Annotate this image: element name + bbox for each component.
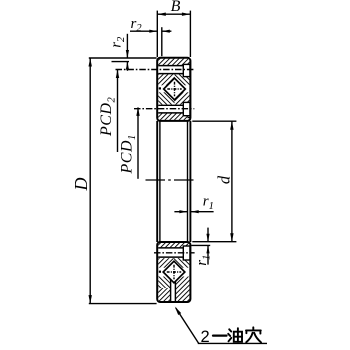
upper section outline [157, 58, 190, 121]
centerline bolt hole PCD1 [134, 108, 194, 110]
dimension D [71, 58, 157, 304]
bearing axis centerline [146, 179, 197, 181]
roller (lower, crossed roller shown as diamond) [163, 261, 185, 283]
kanji oil [229, 329, 231, 331]
centerline bolt hole lower section [154, 252, 195, 254]
roller (upper, crossed roller shown as diamond) [164, 78, 186, 100]
dimension r1 horizontal [174, 194, 213, 214]
dimension d [192, 121, 236, 242]
svg-text:B: B [171, 0, 181, 15]
counterbore upper hole [183, 64, 190, 76]
svg-text:D: D [71, 178, 91, 192]
counterbore lower hole [183, 102, 190, 115]
bore silhouette left face line [156, 121, 158, 242]
oil hole channel [171, 278, 176, 302]
dimension r2 vertical [109, 34, 129, 71]
centerline bolt hole PCD2 [116, 69, 195, 71]
outer ring upper section body [157, 58, 190, 121]
dimension B [157, 0, 190, 57]
svg-text:d: d [214, 175, 233, 184]
kanji hole [252, 327, 254, 330]
svg-text:2: 2 [201, 328, 210, 346]
svg-text:PCD1: PCD1 [119, 134, 139, 174]
counterbore lower section hole [183, 246, 190, 260]
bolt hole upper (PCD2) [158, 66, 184, 74]
lower section outline [157, 242, 190, 302]
chamfer line upper section bottom-right corner [188, 117, 191, 119]
ring split clearance band lower section [158, 268, 189, 277]
bolt hole lower section (PCD1) [158, 248, 184, 257]
bore chamfer line left [159, 122, 161, 242]
dimension PCD1 [119, 107, 140, 178]
label 2-oil holes text [201, 327, 262, 346]
bore silhouette right face line [189, 121, 191, 242]
svg-text:PCD2: PCD2 [98, 97, 118, 138]
dimension r2 horizontal [130, 16, 171, 56]
bore chamfer line right [187, 122, 189, 242]
dimension r1 vertical [191, 228, 212, 266]
ring split clearance band upper section [158, 85, 189, 92]
outer ring lower section body [157, 242, 190, 302]
leader 2-oil holes [175, 307, 267, 344]
dimension PCD2 [98, 70, 119, 153]
bolt hole lower (PCD1) [158, 105, 184, 113]
